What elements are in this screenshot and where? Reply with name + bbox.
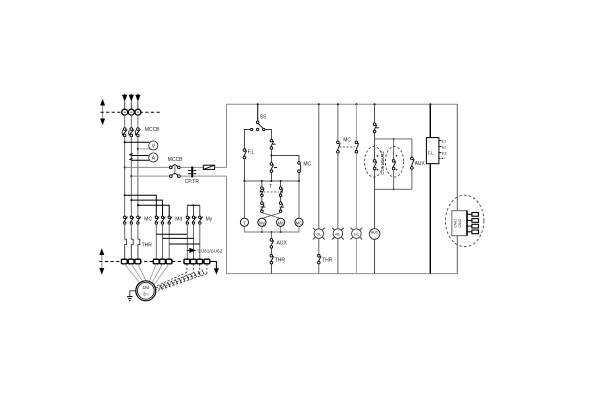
thermal relay THR heater 2	[131, 239, 133, 259]
svg-text:CN61: CN61	[453, 219, 457, 228]
AUX contact in block	[411, 157, 415, 169]
control circuit frame bottom bus	[227, 273, 458, 275]
connector pin wire 4	[467, 231, 472, 233]
control feed upper wire	[125, 166, 170, 168]
node float branch top	[374, 103, 376, 105]
panel boundary double arrow (bottom)	[99, 248, 104, 275]
svg-text:3~: 3~	[143, 292, 149, 298]
float switch CU62 dashed ellipse	[385, 147, 403, 178]
node FL relay branch top	[429, 103, 431, 105]
wire lamp1 to THR2	[318, 238, 320, 254]
control circuit frame top bus	[227, 103, 458, 105]
incoming supply arrow L3	[135, 94, 140, 102]
node SS branch on top bus	[257, 103, 259, 105]
contactor Md pole 1	[155, 216, 159, 224]
contactor coil My	[258, 218, 266, 226]
FL electrode terminal E2	[439, 145, 447, 149]
selector switch SS	[251, 121, 265, 131]
wire to voltmeter	[125, 141, 150, 143]
panel boundary double arrow (top)	[100, 99, 105, 125]
FL electrode dashed stub	[439, 157, 445, 159]
svg-text:CU61/CU62: CU61/CU62	[198, 248, 223, 253]
timer coil T	[240, 218, 248, 226]
float switch CU61 contact	[373, 155, 378, 171]
node lamp branch 2 top	[337, 103, 339, 105]
level contact top	[373, 123, 379, 133]
ammeter A	[149, 153, 158, 162]
feed to Md phase S	[130, 199, 162, 216]
svg-text:E1: E1	[442, 140, 447, 144]
delta link wire 1	[156, 233, 187, 235]
node S control feed	[130, 175, 132, 177]
contactor Md pole 3	[168, 216, 172, 224]
terminal U2	[153, 259, 159, 264]
motor cable bundle (dashed)	[156, 264, 207, 291]
wire FL contact to lower bus	[243, 159, 245, 181]
motor ground wire	[130, 291, 136, 297]
terminal V	[128, 259, 134, 264]
wire S terminal to MCCB	[130, 115, 132, 128]
wire lamp3 to bottom bus	[355, 238, 357, 273]
interlock cross wire right-to-left	[262, 213, 281, 219]
FL relay branch wire lower	[429, 164, 431, 274]
feed to Md phase T	[137, 204, 169, 216]
wire bus to T coil	[243, 181, 245, 218]
panel boundary dashed line (bottom)	[99, 261, 216, 263]
incoming supply arrow L1	[122, 94, 127, 102]
svg-text:RL: RL	[335, 232, 341, 237]
phase T main line	[137, 137, 139, 216]
terminal Z	[197, 259, 203, 264]
interlock cross wire left-to-right	[262, 213, 281, 219]
terminal X	[184, 259, 190, 264]
cable bundle hatch marks	[160, 270, 204, 290]
MC aux linkage dashed	[340, 146, 355, 148]
contactor MC pole 2	[130, 216, 134, 224]
terminal V2	[160, 259, 166, 264]
svg-text:MCCB: MCCB	[168, 157, 183, 163]
svg-text:AUX: AUX	[277, 241, 288, 247]
lamp branch 2 wire lower	[337, 153, 339, 229]
wire top bus to SS	[257, 104, 259, 121]
float switch CU62 branch wire	[393, 139, 395, 160]
wire R terminal to MCCB	[124, 115, 126, 128]
wire L2 arrow to terminal	[130, 101, 132, 109]
MC output lines to thermal relay	[125, 224, 138, 239]
remote connector box	[452, 211, 467, 236]
terminal E	[204, 259, 210, 264]
star point bar of My	[187, 204, 200, 216]
pilot lamp GL	[351, 228, 363, 240]
float switch CU61 dashed ellipse	[365, 147, 383, 178]
wire MCCB to CP.TR lower	[180, 175, 226, 177]
ground symbol	[127, 297, 133, 301]
wire SS left terminal to FL branch	[244, 130, 250, 149]
terminal Y	[190, 259, 196, 264]
MCCB pole 2	[129, 128, 134, 137]
wire pushbutton to bus node	[270, 172, 272, 181]
wire L3 arrow to terminal	[137, 101, 139, 109]
contactor coil Md	[277, 218, 285, 226]
float contact F.L	[243, 149, 247, 159]
wire lamp2 to bottom bus	[337, 238, 339, 273]
node R control feed	[124, 166, 126, 168]
wire T terminal to MCCB	[137, 115, 139, 128]
float branch wire upper	[374, 104, 376, 123]
contactor Md pole 2	[161, 216, 165, 224]
wire block to AUX coil	[374, 189, 376, 228]
connector pin wire 2	[467, 220, 472, 222]
svg-text:CU61/CU62: CU61/CU62	[380, 151, 385, 175]
svg-text:My: My	[206, 217, 213, 223]
svg-text:MC: MC	[296, 220, 303, 225]
panel boundary dashed line (top)	[101, 111, 162, 113]
FL electrode terminal E1	[439, 140, 447, 144]
control MCCB pole 1	[170, 165, 181, 169]
svg-text:F.L: F.L	[428, 151, 434, 156]
MC aux contact NC (stop lamp)	[355, 141, 359, 153]
lamp branch 2 wire upper	[337, 104, 339, 141]
svg-text:THR: THR	[322, 257, 333, 263]
terminal W2	[166, 259, 172, 264]
wire THR to bottom bus	[270, 264, 272, 274]
MC holding contact	[298, 162, 301, 173]
svg-text:MC: MC	[303, 161, 311, 167]
coil bus	[243, 180, 300, 182]
thermal relay THR heater 3	[138, 239, 140, 259]
Md output lines to terminals	[156, 224, 169, 259]
voltmeter V	[149, 141, 158, 150]
node lamp branch 3 top	[355, 103, 357, 105]
node holding branch	[270, 149, 272, 162]
contactor MC pole 1	[124, 216, 128, 224]
FL relay branch wire upper	[429, 104, 431, 137]
feed to Md phase R	[124, 194, 157, 216]
wire CT to ammeter bottom	[132, 159, 149, 161]
wire level contact to block	[374, 133, 376, 139]
svg-text:Md: Md	[278, 220, 284, 225]
svg-text:MC: MC	[343, 138, 351, 144]
wire timer left to interlock left	[261, 197, 263, 202]
svg-text:E3: E3	[442, 152, 447, 156]
wire bus to timer contact right	[280, 181, 282, 187]
terminal W	[135, 259, 141, 264]
timer contact right (to Md)	[279, 187, 283, 197]
svg-text:T: T	[269, 184, 272, 190]
wire MC holding to bus	[298, 173, 300, 182]
pilot lamp OL	[313, 228, 325, 240]
svg-text:CP.TR: CP.TR	[185, 179, 200, 185]
connector pin wire 3	[467, 225, 472, 227]
float switch CU61 branch wire	[374, 139, 376, 160]
outgoing wire terminal E to down arrow	[210, 262, 219, 275]
floatless relay FL box	[426, 138, 439, 164]
incoming terminal R	[122, 109, 128, 115]
svg-text:T: T	[243, 220, 246, 225]
wire timer right to interlock right	[280, 197, 282, 202]
wire to MC holding contact	[271, 155, 299, 161]
control feed lower wire	[131, 175, 169, 177]
phase S main line	[130, 137, 132, 216]
svg-text:MC: MC	[144, 217, 152, 223]
interlock NC contact right	[279, 202, 284, 213]
timer linkage dashed	[264, 191, 280, 193]
wire THR2 to bottom bus	[318, 264, 320, 274]
phase R main line	[124, 137, 126, 216]
svg-text:A: A	[152, 156, 156, 162]
lamp branch 3 wire lower	[355, 153, 357, 229]
float switch CU61 wire lower	[374, 170, 376, 190]
svg-text:1M: 1M	[142, 285, 149, 291]
FL electrode terminal E3	[439, 152, 447, 156]
My output lines to terminals	[187, 224, 200, 259]
wire AUX coil to bottom bus	[374, 239, 376, 273]
svg-text:CN62: CN62	[458, 219, 462, 228]
svg-text:AUX: AUX	[371, 230, 379, 234]
MC aux contact (run lamp)	[337, 141, 341, 153]
svg-text:OL: OL	[316, 232, 322, 237]
control MCCB pole 2	[170, 173, 181, 177]
motor feeder wires group 1	[124, 264, 146, 283]
outgoing wire to float switches with arrow	[187, 248, 196, 253]
wire MCCB to CP.TR upper	[180, 166, 203, 168]
svg-text:SS: SS	[260, 115, 267, 121]
motor 1M	[136, 281, 156, 301]
pushbutton contact lower	[270, 163, 277, 173]
current transformer on phase S	[130, 153, 133, 160]
svg-text:V: V	[152, 144, 156, 150]
connector pin terminal 4	[472, 230, 479, 234]
wire bus to MC coil	[298, 181, 300, 218]
connector pin terminal 2	[472, 219, 479, 223]
control circuit frame right edge	[456, 104, 458, 273]
timer contact left (to My)	[260, 187, 264, 197]
node lamp branch 1 top	[318, 103, 320, 105]
remote connector dashed ellipse	[446, 195, 484, 247]
pilot lamp RL	[332, 228, 344, 240]
interlock NC contact left	[261, 202, 266, 213]
MCCB pole 3	[135, 128, 140, 137]
AUX contact	[270, 239, 274, 249]
pushbutton contact upper (manual)	[270, 139, 276, 149]
MCCB pole 1	[122, 128, 127, 137]
svg-text:GL: GL	[354, 232, 360, 237]
svg-text:E2: E2	[442, 145, 447, 149]
float switch parallel block frame	[375, 138, 412, 190]
wire bus to timer contact left	[261, 181, 263, 187]
connector pin terminal 1	[472, 213, 479, 217]
AUX relay coil	[369, 229, 380, 240]
wire T to voltmeter	[138, 148, 150, 150]
contactor My pole 3	[199, 216, 203, 224]
svg-text:MCCB: MCCB	[145, 127, 160, 133]
wire SS right terminal down	[265, 130, 272, 140]
delta link wire 2	[163, 237, 194, 239]
control fuse	[203, 165, 214, 169]
connector pin terminal 3	[472, 224, 479, 228]
node T voltmeter tap	[137, 148, 139, 150]
wire coil bus down	[270, 232, 272, 239]
incoming supply arrow L2	[129, 94, 134, 102]
float switch CU62 wire lower	[393, 170, 395, 190]
terminal U	[121, 259, 127, 264]
node R voltmeter tap	[124, 141, 126, 143]
contactor My pole 2	[192, 216, 196, 224]
control circuit frame left edge lower	[226, 176, 228, 274]
incoming terminal S	[128, 109, 134, 115]
delta link wire 3	[169, 243, 200, 245]
svg-text:Md: Md	[175, 217, 182, 223]
lamp branch 1 wire upper	[318, 104, 320, 229]
svg-text:AUX: AUX	[415, 161, 426, 167]
THR trip contact 1	[270, 255, 274, 264]
thermal relay THR heater 1	[125, 239, 127, 259]
contactor MC pole 3	[137, 216, 141, 224]
svg-text:My: My	[259, 220, 265, 225]
incoming terminal T	[135, 109, 141, 115]
float switch CU62 contact	[392, 155, 397, 171]
control circuit frame left edge upper	[226, 104, 228, 167]
wire L1 arrow to terminal	[124, 101, 126, 109]
contactor My pole 1	[186, 216, 190, 224]
svg-text:THR: THR	[275, 257, 286, 263]
connector pin wire 1	[467, 213, 472, 215]
wire AUX to THR	[270, 248, 272, 254]
motor feeder wires group 2	[149, 264, 169, 284]
control transformer CP.TR	[188, 167, 196, 178]
contactor coil MC	[295, 218, 303, 226]
THR trip contact 2	[318, 255, 322, 264]
lamp branch 3 wire upper	[355, 104, 357, 141]
svg-text:THR: THR	[142, 242, 153, 248]
svg-text:F.L: F.L	[248, 149, 255, 155]
wire fuse to control box	[215, 166, 227, 168]
wire CT to ammeter top	[132, 155, 149, 157]
control MCCB mechanical tie	[174, 166, 176, 174]
coil bottom bus	[244, 226, 299, 233]
